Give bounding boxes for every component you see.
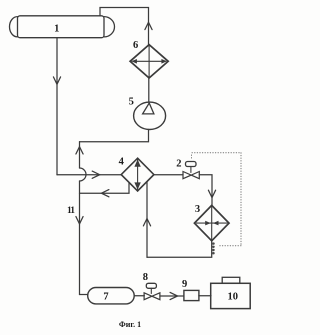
wire tank outlet [53,38,121,179]
wire receiver 7 to valve 8 [134,295,144,297]
bridge crossing [80,168,87,181]
wire valve 8 to unit 9 [160,292,184,299]
arrow down into exchanger 3 [208,190,215,197]
receiver 7 [88,288,135,304]
engine 10 [211,277,251,308]
svg-text:11: 11 [67,206,75,216]
wire unit 9 to engine 10 [199,295,211,297]
svg-text:9: 9 [182,279,187,290]
arrow up on riser to exchanger 4 [143,219,150,226]
wire return from exchanger 4 to line 11 [80,183,130,197]
wire pump 5 down and left [80,130,149,142]
wire exchanger 4 to valve 2 [154,174,183,176]
wire tank top to column [100,8,149,46]
svg-text:2: 2 [176,159,181,170]
arrow up on riser [76,147,83,154]
valve 2 [176,159,199,179]
svg-text:7: 7 [103,292,108,303]
svg-text:4: 4 [119,156,125,167]
arrow down on tank outlet [53,77,60,84]
wire riser to exchanger 4 [143,182,150,258]
svg-text:10: 10 [227,291,238,302]
svg-text:5: 5 [129,96,134,107]
arrow up into top wire [145,22,152,29]
heat exchanger 3 [194,204,229,241]
wire line 11 to receiver 7 [80,294,88,296]
wire valve 2 to exchanger 3 [199,175,215,206]
svg-text:6: 6 [133,40,138,51]
svg-text:3: 3 [195,204,200,215]
unit 9 [182,279,199,301]
arrow left on return wire [101,190,109,197]
tank 1 [9,16,114,38]
dotted control line valve 2 to exchanger 3 [192,153,242,255]
svg-text:Фиг. 1: Фиг. 1 [119,320,141,329]
wire exchanger 3 bottom to riser [147,241,212,257]
wire 6 to pump 5 [148,78,150,102]
heat exchanger 4 [119,156,154,191]
svg-text:8: 8 [143,272,148,283]
dotted end marks at exchanger 3 drain [212,242,215,254]
arrow right into exchanger 4 [92,171,100,178]
valve 8 [143,272,160,300]
arrow right to unit 9 [170,292,178,299]
svg-text:1: 1 [54,23,59,34]
pump 5 [129,96,166,129]
arrow down on line 11 [76,217,83,224]
heat exchanger 6 [130,40,168,78]
wire riser with bridge [67,142,86,295]
